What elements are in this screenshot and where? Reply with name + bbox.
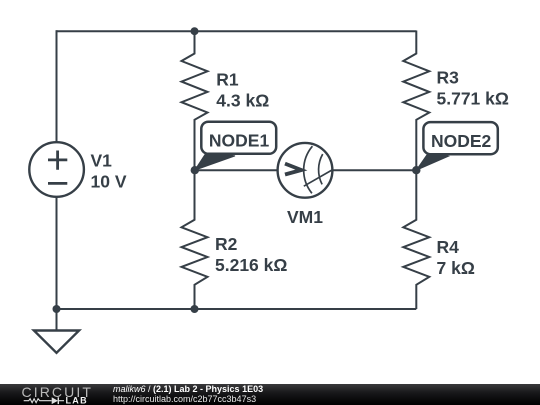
wire VM1 to NODE2 xyxy=(332,169,416,171)
svg-text:5.216 kΩ: 5.216 kΩ xyxy=(215,255,287,275)
svg-text:LAB: LAB xyxy=(66,395,88,405)
svg-text:R3: R3 xyxy=(437,67,460,87)
resistor R3 xyxy=(403,31,429,171)
svg-text:R1: R1 xyxy=(216,70,239,90)
node label NODE2 xyxy=(416,122,498,170)
label R4 value xyxy=(437,237,475,278)
label R2 value xyxy=(215,234,287,275)
label VM1 xyxy=(287,207,323,227)
wire left rail lower xyxy=(56,197,58,310)
junction bottom mid node xyxy=(191,305,199,313)
svg-text:VM1: VM1 xyxy=(287,207,323,227)
resistor R2 xyxy=(182,170,208,309)
label R3 value xyxy=(437,67,509,108)
svg-text:5.771 kΩ: 5.771 kΩ xyxy=(437,89,509,109)
resistor R4 xyxy=(403,170,429,309)
junction ground node xyxy=(53,305,61,313)
node label NODE1 xyxy=(195,122,276,171)
svg-text:10 V: 10 V xyxy=(91,172,127,192)
svg-text:7 kΩ: 7 kΩ xyxy=(437,258,475,278)
svg-text:R4: R4 xyxy=(437,237,460,257)
svg-text:R2: R2 xyxy=(215,234,238,254)
voltmeter VM1 xyxy=(278,143,333,198)
svg-text:NODE1: NODE1 xyxy=(209,131,270,151)
svg-text:4.3 kΩ: 4.3 kΩ xyxy=(216,91,269,111)
label R1 value xyxy=(216,70,269,111)
junction top mid node xyxy=(191,27,199,35)
wire NODE1 to VM1 xyxy=(195,169,278,171)
ground xyxy=(34,309,79,353)
svg-text:V1: V1 xyxy=(91,151,113,171)
junction NODE1 xyxy=(191,166,199,174)
CircuitLab logo xyxy=(0,384,110,405)
footer bar xyxy=(0,384,540,405)
svg-text:NODE2: NODE2 xyxy=(431,131,492,151)
junction NODE2 xyxy=(412,166,420,174)
resistor R1 xyxy=(182,31,208,171)
wire top rail xyxy=(57,30,417,32)
wire left rail upper xyxy=(56,30,58,142)
voltage source V1 xyxy=(29,142,84,197)
wire bottom rail xyxy=(57,308,417,310)
label V1 value xyxy=(91,151,127,192)
footer credits xyxy=(113,384,263,404)
